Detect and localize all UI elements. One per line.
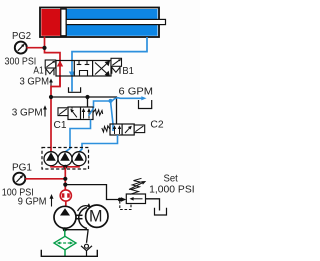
C2 right envelope diagonal arrow — [125, 126, 132, 133]
svg-text:B1: B1 — [122, 66, 134, 77]
tank symbol relief outlet — [155, 208, 167, 215]
wire blue C2 bottom to divider circle 3 — [79, 135, 117, 152]
wire blue C1 bottom to divider circle 2 — [65, 120, 90, 152]
wire red divider bottom manifold — [51, 166, 79, 167]
coupling shaft — [76, 208, 87, 229]
cylinder rod — [66, 19, 165, 24]
node junction PG1 tee — [63, 177, 67, 181]
relief pilot dashed line — [120, 201, 131, 210]
flow divider section 3 — [72, 152, 86, 166]
blue arrowhead into tank — [141, 96, 146, 100]
node junction PG2 tee — [42, 46, 46, 50]
wire red PG2 gauge line — [27, 47, 45, 49]
valve C1 body — [68, 107, 93, 120]
node blue junction to C2 — [109, 99, 113, 103]
flow divider section 2 — [58, 152, 72, 166]
valve DCV blue flow path through envelope — [71, 61, 73, 92]
wire blue rod-end line cylinder to valve — [72, 37, 147, 61]
arrow up beside 3 GPM upper — [49, 79, 53, 88]
flow divider section 1 — [44, 152, 58, 166]
C1 blue flow inside right envelope — [89, 108, 94, 116]
wire pump to inlet junction — [64, 228, 66, 231]
spring below A1 — [46, 69, 54, 76]
valve C2 body — [110, 124, 134, 135]
wire red PG1 line — [25, 178, 65, 180]
svg-text:6 GPM: 6 GPM — [119, 87, 154, 98]
spring left of C2 — [102, 126, 110, 132]
C1 left envelope bent arrow — [70, 107, 77, 117]
svg-text:Set: Set — [164, 173, 179, 184]
wire red supply down to flow meter — [64, 167, 66, 190]
wire blue C1 outlet to tank — [94, 101, 113, 108]
valve DCV blue flow arrowhead down — [69, 72, 75, 78]
wire relief outlet to tank — [146, 199, 160, 211]
flow meter — [60, 190, 71, 201]
tank symbol below DCV (T port) — [69, 87, 81, 92]
DCV right envelope crossed arrows — [95, 61, 109, 75]
solenoid box C2 — [134, 125, 145, 133]
rotation arrow — [78, 203, 92, 211]
node junction C1 feed — [85, 95, 89, 99]
relief valve internal arrow — [130, 197, 143, 201]
arrow up beside 3 GPM lower — [43, 105, 47, 116]
pump — [54, 206, 76, 228]
DCV center envelope blocked port T symbols — [77, 61, 90, 77]
node junction divider outlet — [63, 165, 67, 169]
relief valve spring — [130, 178, 142, 194]
node junction pump inlet — [63, 227, 67, 231]
relief valve body — [126, 194, 145, 204]
cylinder rod-side blue fluid — [67, 9, 158, 36]
wire green filter to tank — [64, 250, 66, 256]
gauge PG2 — [15, 42, 27, 54]
C2 left envelope through arrows — [113, 125, 121, 134]
svg-text:PG2: PG2 — [12, 31, 31, 42]
svg-text:1,000 PSI: 1,000 PSI — [149, 185, 194, 196]
wire red below valve to supply riser — [51, 77, 60, 98]
spring right of C1 — [93, 109, 103, 115]
svg-text:9 GPM: 9 GPM — [18, 197, 47, 208]
svg-text:M: M — [89, 207, 103, 225]
wire black to relief valve — [65, 185, 120, 200]
valve DCV red flow arrowhead up — [57, 61, 63, 67]
gauge PG1 — [13, 173, 25, 185]
wire black drain to check valve — [65, 230, 88, 243]
wire black drop to C1 — [87, 97, 89, 107]
check valve in tank — [81, 244, 92, 256]
arrow up beside 9 GPM — [50, 194, 54, 207]
electric motor — [86, 205, 108, 227]
svg-text:C2: C2 — [150, 120, 164, 131]
wire green suction to filter — [64, 229, 66, 236]
node junction supply rail — [49, 95, 53, 99]
wire red cap-end line cylinder to junction — [45, 37, 61, 62]
C1 right envelope through arrows — [82, 108, 91, 119]
svg-text:A1: A1 — [33, 65, 44, 76]
wire black supply rail — [51, 97, 117, 124]
cylinder piston — [61, 9, 66, 36]
cylinder barrel — [40, 8, 159, 38]
svg-text:3 GPM: 3 GPM — [20, 77, 50, 88]
solenoid box C1 — [58, 108, 68, 116]
tank symbol 6 GPM line — [139, 100, 152, 109]
svg-text:300 PSI: 300 PSI — [5, 57, 37, 68]
node junction relief pilot — [118, 198, 122, 202]
wire blue hop over pressure line — [112, 98, 143, 101]
svg-text:PG1: PG1 — [12, 162, 32, 173]
wire red flow meter to pump — [65, 201, 67, 208]
solenoid A1 box — [45, 60, 56, 68]
arrowhead into relief valve — [121, 197, 126, 201]
relief valve adjust arrow — [129, 181, 146, 190]
node junction relief branch — [63, 183, 67, 187]
solenoid B1 box — [111, 58, 122, 66]
filter — [54, 236, 76, 250]
valve DCV red flow path through envelope — [59, 61, 61, 87]
cylinder cap-side red fluid — [41, 9, 60, 36]
flow divider dashed enclosure — [42, 148, 89, 170]
directional valve body (3 envelopes) — [56, 61, 111, 77]
svg-text:3 GPM: 3 GPM — [12, 108, 43, 119]
main reservoir tank — [41, 250, 97, 256]
spring below B1 — [112, 67, 120, 74]
wire blue drop to C2 — [111, 101, 114, 131]
wire red supply riser from flow divider — [50, 97, 52, 152]
svg-text:C1: C1 — [54, 120, 67, 131]
